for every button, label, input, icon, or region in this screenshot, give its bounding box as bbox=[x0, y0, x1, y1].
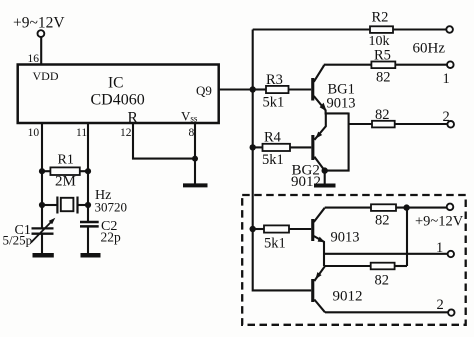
resistor 82 (in box, bottom) bbox=[324, 263, 407, 289]
capacitor C2 22p bbox=[80, 219, 121, 245]
wire terminal 2 row (in box) bbox=[325, 311, 448, 313]
svg-text:2M: 2M bbox=[55, 174, 76, 190]
resistor 82 (output 2) bbox=[349, 107, 448, 127]
ground (pin 8) bbox=[183, 159, 208, 186]
svg-text:2: 2 bbox=[443, 109, 450, 125]
wire 82 to +9~12V node (in box) bbox=[406, 208, 408, 266]
power terminal +9~12V (top left) bbox=[13, 15, 65, 38]
svg-text:Q9: Q9 bbox=[196, 83, 212, 98]
svg-text:5k1: 5k1 bbox=[262, 152, 284, 168]
wire Q9 output from IC bbox=[219, 88, 253, 90]
wire pin10 vertical bbox=[41, 123, 43, 228]
transistor BG2 9012 bbox=[291, 113, 326, 190]
ground (BG2) bbox=[314, 171, 336, 186]
svg-text:9012: 9012 bbox=[291, 174, 321, 190]
transistor Q4 9012 (in box) bbox=[311, 266, 362, 312]
node Q9 bus junction bbox=[250, 86, 256, 92]
svg-text:5k1: 5k1 bbox=[264, 236, 286, 252]
ground (C1) bbox=[33, 234, 54, 256]
pin 10 label bbox=[28, 127, 40, 139]
pin 11 label bbox=[76, 127, 87, 139]
node terminal 1 (in box) bbox=[436, 240, 454, 257]
resistor R3 5k1 bbox=[253, 72, 312, 111]
svg-text:CD4060: CD4060 bbox=[91, 92, 145, 109]
wire emitter bus vertical x348.6 bbox=[325, 113, 349, 171]
resistor R5 82 bbox=[324, 47, 447, 85]
node BG2 collector junction bbox=[322, 167, 328, 173]
node R1 left junction bbox=[39, 168, 45, 174]
svg-text:VDD: VDD bbox=[33, 69, 59, 83]
node pin8/pin12 junction bbox=[192, 156, 198, 162]
pin 8 label bbox=[189, 127, 195, 139]
wire pin16 to power terminal bbox=[40, 37, 42, 64]
svg-text:Vss: Vss bbox=[181, 109, 198, 124]
svg-text:R4: R4 bbox=[264, 130, 282, 146]
pin 12 label bbox=[120, 127, 132, 139]
resistor R1 2M bbox=[42, 153, 88, 190]
crystal Y1 30720 Hz bbox=[42, 188, 127, 215]
svg-text:10: 10 bbox=[28, 127, 40, 139]
transistor Q3 9013 (in box) bbox=[311, 208, 359, 266]
svg-text:R1: R1 bbox=[58, 153, 74, 168]
svg-text:R2: R2 bbox=[372, 10, 389, 26]
node 60Hz output terminal bbox=[413, 26, 453, 56]
svg-text:1: 1 bbox=[443, 71, 450, 87]
svg-text:9012: 9012 bbox=[333, 289, 363, 305]
wire pin11 vertical bbox=[87, 123, 89, 222]
svg-text:82: 82 bbox=[376, 70, 391, 86]
svg-text:9013: 9013 bbox=[331, 230, 360, 246]
svg-text:12: 12 bbox=[120, 127, 132, 139]
resistor R4 5k1 bbox=[253, 130, 312, 169]
svg-text:60Hz: 60Hz bbox=[413, 41, 446, 57]
svg-text:5k1: 5k1 bbox=[263, 95, 285, 111]
capacitor C1 5/25p (variable) bbox=[3, 218, 56, 248]
svg-text:IC: IC bbox=[108, 75, 124, 92]
svg-text:R5: R5 bbox=[374, 47, 391, 63]
svg-text:82: 82 bbox=[375, 273, 390, 289]
op-amp U1 : IC CD4060 box bbox=[18, 65, 219, 127]
ground (C2) bbox=[81, 226, 101, 255]
svg-text:30720: 30720 bbox=[95, 200, 128, 215]
dashed option box bbox=[242, 195, 466, 325]
svg-text:+9~12V: +9~12V bbox=[13, 15, 65, 32]
pin 16 label bbox=[28, 53, 40, 65]
svg-text:R3: R3 bbox=[266, 72, 283, 88]
transistor BG1 9013 bbox=[311, 65, 355, 114]
node crystal left junction bbox=[39, 202, 45, 208]
node output terminal 2 bbox=[443, 109, 455, 128]
node terminal 2 (in box) bbox=[437, 297, 455, 316]
wire terminal 1 row (in box) bbox=[324, 253, 448, 255]
resistor 82 (in box, top) bbox=[325, 204, 447, 228]
node R1 right junction bbox=[85, 168, 91, 174]
svg-text:+9~12V: +9~12V bbox=[415, 214, 464, 230]
node +9~12V junction (in box) bbox=[403, 204, 409, 210]
svg-text:22p: 22p bbox=[101, 230, 122, 245]
svg-text:11: 11 bbox=[76, 127, 87, 139]
node +9~12V terminal (in box) bbox=[415, 204, 464, 230]
svg-text:8: 8 bbox=[189, 127, 195, 139]
svg-text:9013: 9013 bbox=[327, 95, 356, 111]
wire pin8 down bbox=[194, 123, 196, 159]
svg-text:16: 16 bbox=[28, 53, 40, 65]
svg-text:5/25p: 5/25p bbox=[3, 233, 33, 248]
wire Q9 bus vertical bbox=[253, 30, 312, 291]
node output terminal 1 bbox=[443, 61, 454, 87]
wire pin12 to pin8 junction bbox=[133, 123, 195, 159]
svg-text:2: 2 bbox=[437, 297, 444, 313]
svg-text:1: 1 bbox=[436, 240, 443, 256]
node R4 bus junction bbox=[250, 144, 256, 150]
resistor 5k1 (in box) bbox=[253, 225, 312, 251]
node 5k1 bus junction bbox=[250, 226, 256, 232]
svg-text:82: 82 bbox=[375, 213, 390, 229]
node crystal right junction bbox=[85, 202, 91, 208]
svg-text:82: 82 bbox=[375, 107, 390, 123]
resistor R2 10k bbox=[253, 10, 447, 50]
